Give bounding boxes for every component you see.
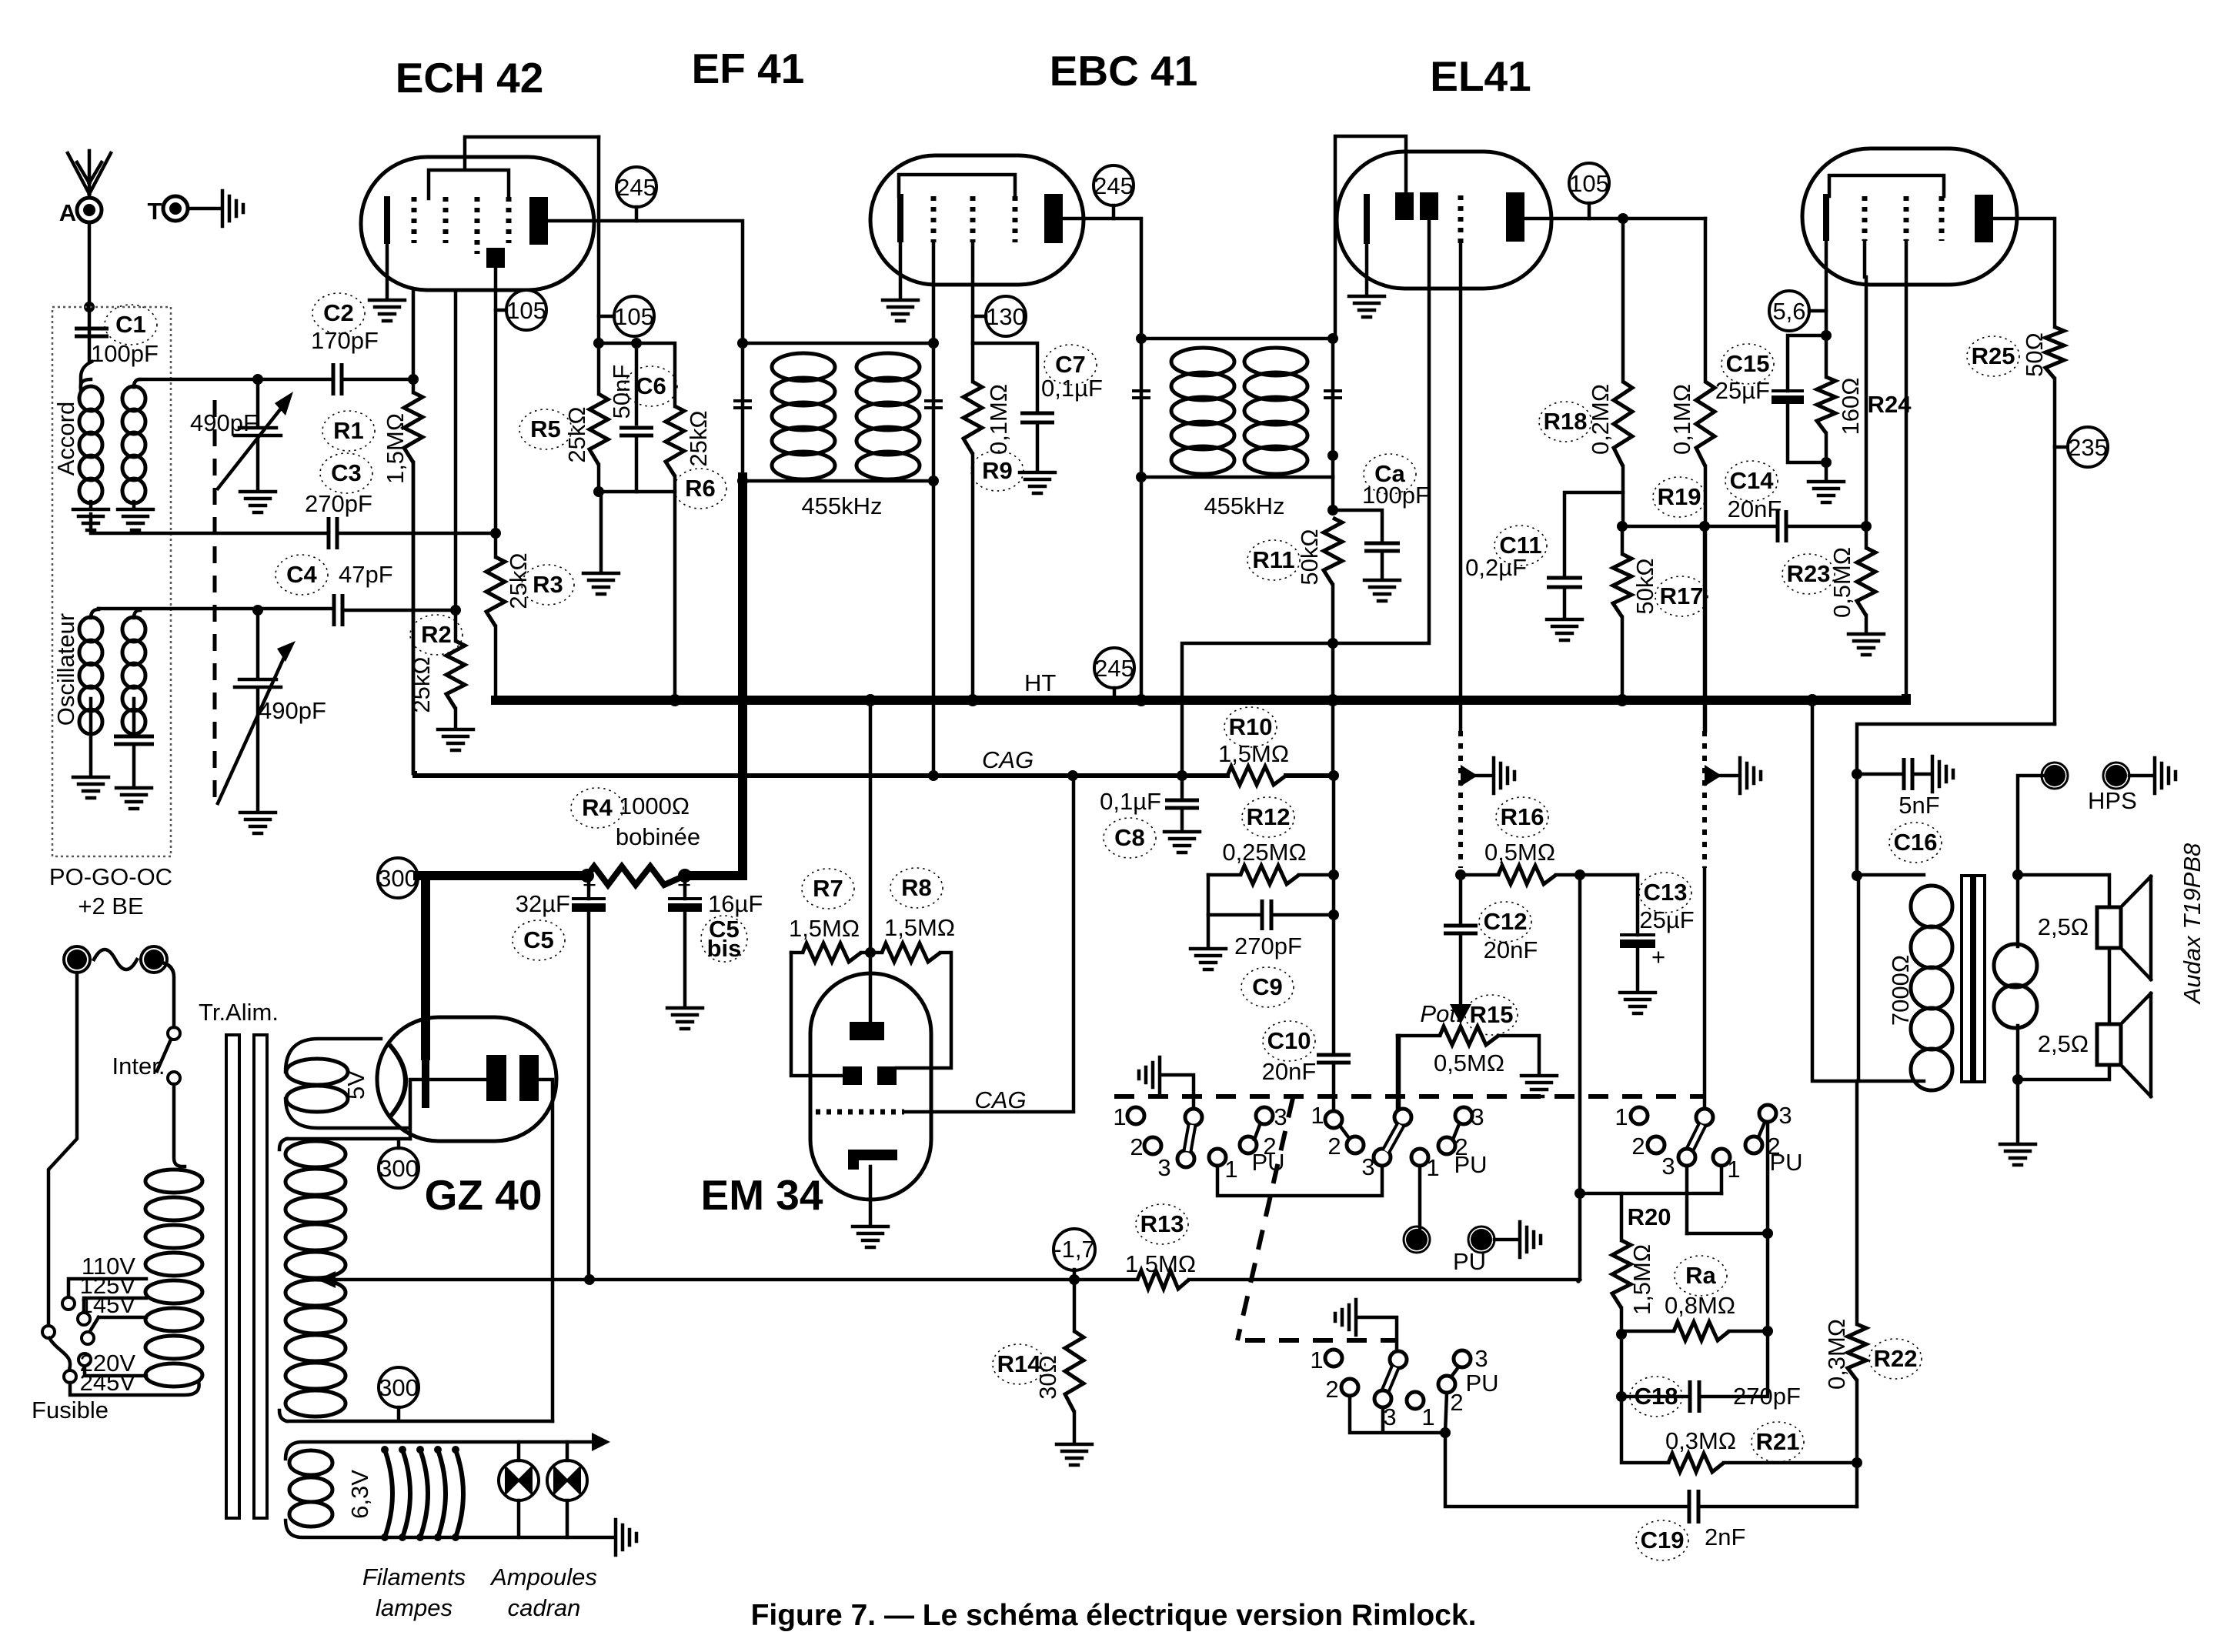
IF1 secondary coil [857, 353, 920, 381]
HT winding [287, 1137, 410, 1141]
coil Oscillateur secondary [122, 617, 145, 642]
resistor Ra 0,8M [1621, 1330, 1674, 1333]
HT winding bottom [279, 1139, 553, 1421]
svg-text:0,2MΩ: 0,2MΩ [1587, 384, 1614, 455]
ground (R23) [1848, 634, 1884, 655]
svg-text:0,25MΩ: 0,25MΩ [1222, 839, 1306, 866]
switch S3b contacts [1713, 1149, 1730, 1166]
svg-text:20nF: 20nF [1484, 936, 1538, 963]
wire anode line to output transformer [1857, 724, 2055, 876]
HT bus [496, 699, 1906, 700]
ground (C16) [1932, 756, 1953, 792]
svg-text:Accord: Accord [52, 402, 79, 476]
switch S1b contacts [1209, 1149, 1226, 1166]
svg-text:C5: C5 [523, 926, 554, 953]
svg-text:PO-GO-OC: PO-GO-OC [49, 863, 172, 890]
HPS terminal 1 [2044, 765, 2065, 786]
svg-text:R23: R23 [1787, 560, 1831, 587]
svg-text:Fusible: Fusible [32, 1397, 109, 1423]
capacitor C10 20nF [1317, 1055, 1351, 1063]
mains sine symbol [94, 949, 137, 970]
dashed tuning gang link [213, 400, 217, 800]
circle 105 (screen divider) [614, 296, 654, 336]
EF41 cathode [897, 194, 903, 242]
ground (R5/C6) [583, 573, 619, 594]
svg-text:R5: R5 [530, 416, 561, 442]
EM34 cathode (dotted) [816, 1110, 904, 1115]
ground (R15) [1521, 1076, 1557, 1096]
svg-text:25µF: 25µF [1639, 906, 1694, 933]
mains terminal right [144, 949, 164, 970]
EBC41 diode plates [1395, 192, 1414, 220]
variable capacitor 490pF (accord) [252, 374, 263, 385]
switch S2b contacts [1407, 1392, 1424, 1409]
svg-text:C12: C12 [1484, 908, 1528, 935]
wire screen to R3 node [494, 268, 498, 533]
wire EM34 deflector to ground [869, 1166, 873, 1223]
circle 245 (ECH42 anode) [616, 167, 656, 207]
switch S3a fixed contacts [1631, 1107, 1648, 1124]
circle 245 (EF41 anode) [1094, 165, 1134, 205]
resistor 160ohm (cathode bias) [1825, 335, 1828, 377]
svg-text:Figure 7. — Le schéma électriq: Figure 7. — Le schéma électrique version… [751, 1599, 1477, 1632]
5V winding [286, 1039, 408, 1128]
circle 245 (HT) [1094, 648, 1134, 688]
circle 300 (top) [379, 1148, 419, 1188]
EL41 grid screened lead [1703, 526, 1707, 731]
wire osc grid pin down [454, 290, 458, 610]
resistor R9 0,1M [963, 382, 982, 454]
EM34 deflector [848, 1150, 897, 1170]
svg-text:C10: C10 [1267, 1027, 1311, 1054]
svg-text:0,5MΩ: 0,5MΩ [1828, 547, 1855, 618]
svg-text:C6: C6 [636, 372, 666, 399]
svg-text:0,2µF: 0,2µF [1465, 554, 1527, 581]
ground (R14) [1057, 1444, 1092, 1465]
svg-text:235: 235 [2068, 434, 2108, 461]
svg-text:1,5MΩ: 1,5MΩ [1218, 740, 1289, 767]
wire to switch Inter [165, 963, 174, 1027]
svg-text:Filaments: Filaments [362, 1564, 466, 1590]
coil Accord secondary [122, 386, 145, 411]
capacitor C6 50nF [635, 343, 639, 424]
switch S2 moving contact [1390, 1351, 1407, 1368]
svg-text:R18: R18 [1544, 408, 1588, 435]
output transformer primary 7000ohm [1858, 875, 1924, 1081]
svg-text:R8: R8 [901, 874, 932, 901]
svg-text:bis: bis [707, 935, 742, 962]
S1 bottom link [1217, 1166, 1382, 1196]
svg-text:270pF: 270pF [1234, 933, 1302, 959]
svg-text:R12: R12 [1247, 803, 1291, 830]
svg-text:50nF: 50nF [608, 365, 635, 419]
svg-text:25µF: 25µF [1715, 377, 1770, 404]
primary tap 110V [68, 1279, 146, 1296]
svg-text:3: 3 [1471, 1103, 1484, 1130]
svg-text:5V: 5V [342, 1070, 369, 1100]
svg-text:0,1MΩ: 0,1MΩ [985, 384, 1012, 455]
svg-text:CAG: CAG [982, 746, 1034, 773]
thick 300V rail to R4 [418, 871, 587, 880]
EF41 internal top frame [899, 175, 1015, 196]
EL41 grids (dotted) [1862, 196, 1868, 241]
svg-text:270pF: 270pF [1733, 1383, 1801, 1410]
svg-text:3: 3 [1474, 1345, 1488, 1372]
svg-text:0,3MΩ: 0,3MΩ [1823, 1319, 1850, 1390]
svg-text:R9: R9 [982, 457, 1013, 484]
svg-text:1,5MΩ: 1,5MΩ [884, 914, 955, 941]
svg-text:R20: R20 [1628, 1203, 1671, 1230]
svg-text:3: 3 [1157, 1154, 1170, 1181]
svg-text:25kΩ: 25kΩ [505, 552, 532, 609]
terminal T [163, 196, 188, 221]
ground (tuning cap 2) [240, 813, 275, 833]
wire T to ground [189, 207, 221, 211]
capacitor C19 2nF [1689, 1490, 1698, 1524]
wire Accord secondary to C2 line [134, 379, 330, 387]
svg-text:C7: C7 [1055, 351, 1086, 378]
svg-text:1: 1 [1727, 1156, 1740, 1183]
antenna A [68, 151, 111, 198]
resistor R18 0,2M [1621, 219, 1625, 382]
svg-text:R22: R22 [1874, 1345, 1918, 1372]
ground (EM34) [853, 1226, 888, 1247]
svg-text:2: 2 [1450, 1389, 1463, 1416]
ground (C7) [1020, 472, 1055, 493]
svg-text:7000Ω: 7000Ω [1887, 955, 1914, 1026]
svg-text:HT: HT [1024, 669, 1056, 696]
CAG line [415, 773, 1227, 776]
svg-text:C3: C3 [331, 459, 362, 486]
resistor R1 1,5M [408, 374, 419, 385]
svg-text:C14: C14 [1730, 467, 1775, 494]
svg-text:455kHz: 455kHz [801, 492, 882, 519]
svg-text:490pF: 490pF [190, 409, 258, 436]
HT junction dots [669, 694, 681, 706]
svg-text:100pF: 100pF [1362, 482, 1430, 509]
svg-text:cadran: cadran [508, 1594, 581, 1621]
resistor R4 1000ohm bobinee (thick) [587, 866, 685, 885]
tube ECH42 envelope [361, 157, 594, 290]
resistor R3 25k [490, 528, 501, 539]
svg-text:Tr.Alim.: Tr.Alim. [199, 999, 279, 1026]
IF transformer 1 (455kHz) [743, 343, 933, 481]
ground (Ca) [1364, 580, 1400, 601]
svg-text:1: 1 [1426, 1154, 1439, 1181]
resistor R22 0,3M [1855, 1081, 1859, 1324]
svg-text:1,5MΩ: 1,5MΩ [1628, 1244, 1655, 1315]
6,3V winding [286, 1442, 613, 1537]
capacitor C8 0,1uF [1165, 800, 1199, 808]
svg-text:245: 245 [616, 174, 656, 201]
ground (Accord secondary) [118, 509, 153, 530]
IF1 secondary cap [924, 401, 943, 408]
wire EBC41 anode [1524, 217, 1705, 221]
wire HT to EM34 target [869, 700, 873, 1022]
resistor R17 50k [1617, 521, 1628, 532]
switch S2 ground hook [1335, 1300, 1356, 1335]
svg-text:25kΩ: 25kΩ [685, 410, 712, 466]
GZ40 cathode feed (thick) [421, 876, 430, 1056]
svg-text:R1: R1 [333, 417, 364, 444]
svg-text:R13: R13 [1140, 1210, 1184, 1237]
svg-text:0,5MΩ: 0,5MΩ [1484, 839, 1555, 866]
filament arcs [385, 1450, 392, 1537]
svg-text:R19: R19 [1658, 483, 1701, 510]
svg-text:PU: PU [1453, 1248, 1486, 1275]
output transformer secondary [2016, 875, 2020, 1080]
capacitor C9 270pF [1208, 875, 1262, 915]
svg-text:47pF: 47pF [339, 561, 393, 588]
svg-text:100pF: 100pF [91, 340, 159, 367]
svg-text:PU: PU [1454, 1151, 1487, 1178]
IF2 secondary cap [1324, 391, 1342, 398]
EBC41 grid (dotted) [1458, 195, 1464, 244]
svg-text:270pF: 270pF [305, 490, 372, 517]
svg-text:C2: C2 [323, 299, 354, 326]
wire EF41 anode to IF2 [1063, 219, 1141, 339]
EBC41 cathode [1364, 194, 1370, 244]
svg-text:160Ω: 160Ω [1837, 378, 1864, 436]
resistor R10 1,5M [1227, 766, 1286, 785]
resistor R12 0,25M [1208, 873, 1241, 877]
wire S3b contact3 down [1687, 1122, 1768, 1331]
resistor R8 1,5M [870, 951, 882, 955]
svg-text:C19: C19 [1641, 1527, 1685, 1554]
EBC41 anode [1506, 192, 1524, 242]
svg-text:3: 3 [1361, 1153, 1374, 1180]
svg-text:R16: R16 [1501, 803, 1544, 830]
svg-text:R21: R21 [1756, 1428, 1800, 1455]
svg-text:Oscillateur: Oscillateur [52, 613, 79, 726]
wire grid1 pin down [412, 290, 416, 379]
dashed switch gang line [1114, 1094, 1705, 1099]
S3 bottom link [1687, 1166, 1721, 1233]
ground (C5bis) [667, 1008, 703, 1029]
capacitor C5 32uF [587, 876, 591, 899]
svg-text:R17: R17 [1660, 582, 1704, 609]
svg-text:1,5MΩ: 1,5MΩ [382, 413, 409, 484]
wire EF41 g2 down [971, 242, 975, 382]
svg-text:130: 130 [986, 303, 1026, 330]
dashed coil box PO-GO-OC [52, 307, 171, 856]
capacitor C18 270pF [1621, 1395, 1690, 1399]
svg-text:300: 300 [379, 1374, 419, 1401]
svg-text:145V: 145V [80, 1291, 136, 1318]
resistor R16 0,5M [1455, 869, 1466, 880]
svg-text:0,8MΩ: 0,8MΩ [1665, 1292, 1735, 1319]
ground (Accord primary) [73, 509, 109, 530]
circle 300 (rectifier output) [378, 858, 418, 898]
padder capacitor (osc) [114, 736, 154, 744]
IF transformer 2 (455kHz) [1141, 339, 1333, 477]
ground (C11) [1547, 619, 1582, 640]
svg-text:T: T [148, 198, 162, 225]
resistor R7 1,5M [791, 951, 803, 955]
variable capacitor 490pF (osc) [252, 605, 263, 616]
svg-text:-1,7: -1,7 [1054, 1236, 1094, 1263]
output transformer core [1962, 876, 1972, 1082]
svg-text:2: 2 [1631, 1133, 1645, 1160]
circle -1,7 [1054, 1229, 1095, 1270]
PU terminal 1 [1406, 1229, 1428, 1250]
ECH42 screen grid electrode [486, 248, 505, 268]
svg-text:C18: C18 [1635, 1383, 1678, 1410]
primary tap 145V [90, 1317, 146, 1331]
svg-text:245V: 245V [80, 1369, 136, 1396]
ground (R2) [438, 729, 473, 750]
ground (EF41 cathode) [883, 300, 918, 321]
ground (6,3V) [616, 1520, 636, 1555]
switch S2 fixed contacts [1325, 1350, 1342, 1367]
circle 300 (bottom) [379, 1367, 419, 1407]
primary tap 245V [70, 1381, 199, 1395]
svg-text:50kΩ: 50kΩ [1296, 529, 1323, 585]
resistor R13 1,5M [1137, 1270, 1189, 1289]
coil Accord primary [79, 386, 102, 411]
ECH42 internal top connection [429, 137, 599, 199]
svg-text:PU: PU [1769, 1149, 1802, 1176]
potentiometer R15 0,5M [1398, 1034, 1440, 1038]
primary tap 220V [85, 1367, 146, 1376]
svg-text:32µF: 32µF [516, 890, 570, 917]
svg-text:0,1µF: 0,1µF [1041, 375, 1103, 402]
mains terminal left [67, 949, 87, 970]
svg-text:25kΩ: 25kΩ [563, 406, 590, 462]
svg-text:490pF: 490pF [259, 697, 326, 724]
speaker return + ground [2018, 1065, 2109, 1141]
svg-text:EBC 41: EBC 41 [1050, 47, 1198, 95]
ground (C8) [1164, 832, 1200, 853]
svg-text:20nF: 20nF [1728, 496, 1782, 522]
svg-text:1000Ω: 1000Ω [619, 793, 690, 819]
EL41 cathode [1823, 194, 1829, 241]
svg-text:C9: C9 [1252, 973, 1283, 1000]
svg-text:+: + [677, 871, 691, 898]
circle 105 (EBC41 anode) [1569, 163, 1609, 203]
circle 235 [2068, 427, 2108, 467]
IF1 primary cap [733, 401, 752, 408]
wire EL41 g2 to HT [1905, 241, 1908, 699]
svg-text:EM 34: EM 34 [701, 1171, 823, 1219]
EL41 anode [1975, 195, 1993, 242]
svg-text:105: 105 [1569, 170, 1609, 197]
svg-text:A: A [59, 199, 76, 226]
svg-text:5,6: 5,6 [1772, 298, 1805, 325]
switch S1c moving contact [1394, 1109, 1411, 1126]
wire EL41 anode to R25 [1993, 219, 2055, 327]
switch S1c fixed contacts [1325, 1111, 1342, 1128]
svg-text:1,5MΩ: 1,5MΩ [1125, 1250, 1196, 1277]
PU terminal 2 + ground [1471, 1229, 1492, 1250]
capacitor C15 25uF [1788, 335, 1826, 391]
svg-text:+: + [1651, 943, 1665, 970]
svg-text:3: 3 [1661, 1153, 1675, 1180]
svg-text:170pF: 170pF [311, 327, 379, 354]
svg-text:C15: C15 [1726, 350, 1770, 377]
resistor R21 0,3M [1621, 1397, 1668, 1463]
svg-text:HPS: HPS [2088, 787, 2137, 814]
resistor R2 25k [450, 605, 461, 616]
ground (tuning cap 1) [240, 492, 275, 512]
ground (C13) [1620, 993, 1655, 1013]
capacitor C5bis 16uF [683, 876, 687, 899]
wire IF2 secondary down [1331, 477, 1335, 510]
coil Oscillateur primary [79, 617, 102, 642]
speaker 1 [2024, 875, 2109, 907]
svg-text:Pot.: Pot. [1420, 1000, 1462, 1027]
wire R7 to EM34 grid [791, 953, 843, 1076]
ground (C9/R12) [1190, 949, 1226, 970]
svg-text:1: 1 [1311, 1102, 1324, 1129]
capacitor C12 20nF [1459, 875, 1463, 926]
svg-text:bobinée: bobinée [616, 823, 700, 850]
GZ40 filament [391, 1046, 406, 1116]
GZ40 anode wiring [410, 1080, 553, 1421]
svg-text:C16: C16 [1894, 829, 1938, 856]
speaker 2 [2108, 948, 2112, 1024]
wire antenna to C1 [88, 222, 92, 335]
svg-text:Audax T19PB8: Audax T19PB8 [2179, 843, 2206, 1005]
switch S1a moving contact + ground [1162, 1075, 1194, 1109]
svg-text:5nF: 5nF [1898, 792, 1939, 819]
wire EM34 cathode to CAG [904, 776, 1074, 1112]
IF2 primary coil [1171, 348, 1234, 375]
svg-text:+2 BE: +2 BE [78, 893, 143, 919]
svg-text:R7: R7 [813, 875, 843, 902]
ground (ECH42 cathode) [369, 300, 405, 321]
bias rail -1,7V [553, 1280, 1578, 1281]
wire S2 to C19 [1445, 1433, 1689, 1507]
resistor R25 50ohm [2045, 327, 2064, 379]
dial lamp 2 [566, 1442, 569, 1537]
IF2 primary cap [1132, 391, 1150, 398]
svg-text:30Ω: 30Ω [1034, 1355, 1061, 1400]
svg-text:2,5Ω: 2,5Ω [2038, 913, 2089, 940]
svg-text:1: 1 [1310, 1347, 1323, 1373]
svg-text:+: + [583, 871, 596, 898]
thick HT spine from IF1 [738, 477, 747, 876]
svg-text:105: 105 [506, 297, 546, 324]
resistor R14 30ohm [1073, 1280, 1077, 1331]
circle 130 (EF41 screen) [986, 296, 1026, 336]
capacitor C13 25uF [1636, 875, 1640, 935]
svg-text:lampes: lampes [376, 1594, 452, 1621]
svg-text:105: 105 [614, 303, 654, 330]
svg-text:3: 3 [1274, 1103, 1287, 1130]
svg-text:2nF: 2nF [1705, 1524, 1745, 1550]
svg-text:C4: C4 [286, 561, 317, 588]
EF41 grids (dotted) [931, 196, 937, 242]
capacitor C16 5nF [1857, 773, 1904, 776]
svg-text:1: 1 [1113, 1103, 1126, 1130]
svg-text:PU: PU [1465, 1370, 1498, 1397]
svg-text:C8: C8 [1114, 824, 1145, 851]
resistor R11 50k [1324, 518, 1342, 585]
ground (EBC41 grid shield) [1494, 758, 1514, 793]
svg-text:0,3MΩ: 0,3MΩ [1665, 1427, 1736, 1454]
EM34 grids [843, 1066, 862, 1085]
wire R16 node down to rail [1578, 875, 1582, 1280]
GZ40 anodes [486, 1055, 506, 1101]
svg-text:50kΩ: 50kΩ [1631, 558, 1658, 614]
ground (T) [222, 191, 243, 226]
svg-text:0,1MΩ: 0,1MΩ [1668, 384, 1695, 455]
power transformer core [226, 1035, 239, 1518]
svg-text:245: 245 [1094, 655, 1134, 682]
ECH42 cathode [384, 196, 390, 244]
svg-text:1,5MΩ: 1,5MΩ [789, 915, 860, 942]
